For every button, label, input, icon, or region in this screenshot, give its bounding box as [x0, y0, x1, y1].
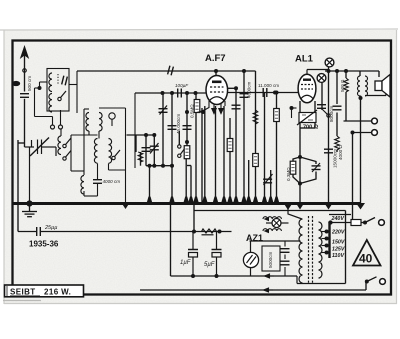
- svg-text:1µF: 1µF: [180, 260, 191, 266]
- svg-text:15000cm: 15000cm: [333, 149, 338, 168]
- svg-text:150V: 150V: [332, 240, 345, 246]
- svg-text:500 Ω: 500 Ω: [340, 79, 345, 92]
- svg-text:11.000 cm: 11.000 cm: [258, 83, 279, 88]
- svg-text:1935-36: 1935-36: [29, 240, 59, 249]
- svg-text:220V: 220V: [331, 230, 345, 236]
- svg-text:5µF: 5µF: [204, 262, 215, 268]
- svg-text:4000 cm: 4000 cm: [103, 179, 121, 184]
- svg-text:8000cm: 8000cm: [329, 105, 334, 122]
- svg-text:240V: 240V: [331, 216, 345, 222]
- svg-text:500 cm: 500 cm: [27, 76, 32, 91]
- svg-text:A.F7: A.F7: [205, 53, 226, 64]
- svg-text:100µF: 100µF: [175, 83, 189, 88]
- svg-text:125V: 125V: [332, 247, 345, 253]
- svg-text:SEIBT: SEIBT: [10, 288, 36, 297]
- svg-text:5000cm: 5000cm: [268, 251, 273, 268]
- svg-text:700 Ω: 700 Ω: [303, 125, 319, 131]
- svg-text:4000cm: 4000cm: [247, 81, 252, 98]
- svg-text:40: 40: [359, 252, 373, 266]
- svg-text:25µµ: 25µµ: [44, 225, 57, 231]
- svg-text:0,3MΩ: 0,3MΩ: [286, 167, 291, 181]
- svg-text:110V: 110V: [332, 253, 344, 259]
- svg-text:0,5MΩ: 0,5MΩ: [190, 104, 195, 118]
- svg-text:AL1: AL1: [295, 54, 314, 65]
- svg-text:216 W.: 216 W.: [44, 288, 71, 297]
- svg-text:45.000cm: 45.000cm: [176, 114, 181, 134]
- svg-text:4000 Ω: 4000 Ω: [338, 145, 343, 160]
